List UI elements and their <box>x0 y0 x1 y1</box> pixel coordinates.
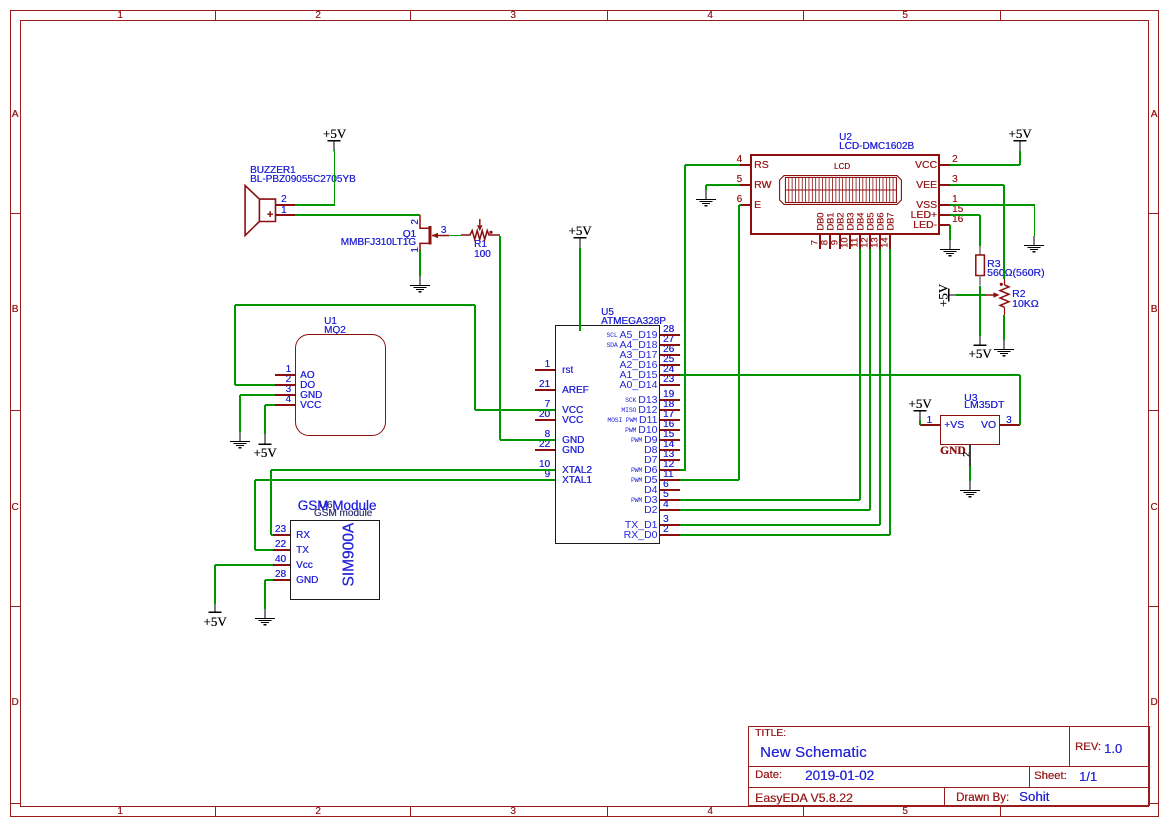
resistor R1 symbol <box>458 216 504 242</box>
wire +5V to U3 pin 1 <box>919 420 920 426</box>
ground (GSM GND) <box>252 609 278 629</box>
frame tick right 4 <box>1149 803 1159 804</box>
U5 pin 13 D7 <box>660 459 680 460</box>
U1 pin 3 GND <box>275 394 295 395</box>
U5 pin 27 A4_D18 <box>660 344 680 345</box>
wire buzzer pin 1 to Q1 drain <box>295 214 421 215</box>
U3 pin 3 VO <box>1000 424 1020 425</box>
U5 pin 6 D4 <box>660 489 680 490</box>
U5 pin 19 D13 <box>660 399 680 400</box>
buzzer BUZZER1 speaker symbol <box>243 184 279 238</box>
wire U2 LED+ to R3 <box>950 214 980 215</box>
power +5V symbol (buzzer) <box>323 127 346 140</box>
wire U2 E to U5 D5 <box>739 204 741 205</box>
frame row label B left <box>12 305 19 315</box>
module GSM module sub label <box>314 509 372 519</box>
title block REV divider <box>1069 726 1070 766</box>
GSM pin 22 TX <box>272 549 290 550</box>
U5 pin 25 A2_D16 <box>660 364 680 365</box>
IC U1 value label MQ2 <box>324 326 346 336</box>
U5 pin 21 AREF <box>535 389 555 390</box>
frame tick left 2 <box>10 410 20 411</box>
frame row label D right <box>1150 698 1157 708</box>
ground (Q1 source) <box>407 276 433 296</box>
resistor R3 symbol <box>972 245 990 286</box>
wire R2 bottom to ground <box>1003 315 1004 340</box>
IC U2 value label LCD-DMC1602B <box>839 142 914 152</box>
U2 pin 16 LED- <box>940 224 950 225</box>
U2 pin 11 DB4 <box>859 235 860 249</box>
title label Drawn By: <box>956 793 1009 805</box>
wire U2 RW to ground <box>706 184 740 185</box>
U5 pin 20 VCC <box>535 419 555 420</box>
wire U2 VEE to R2 <box>950 184 1004 185</box>
resistor R3 designator label <box>987 259 1000 270</box>
frame column label 4 top <box>707 11 713 21</box>
wire U2 RS to U5 D6 <box>685 164 740 165</box>
frame tick top 5 <box>1000 10 1001 20</box>
wire +5V to buzzer pin 2 <box>334 150 335 205</box>
wire R3 to +5V <box>979 286 980 337</box>
title value Sohit <box>1019 790 1049 803</box>
U5 pin 1 rst <box>535 369 555 370</box>
wire U1 GND to ground <box>240 394 275 395</box>
wire Q1 source to ground <box>419 250 420 276</box>
power +5V symbol (R3) <box>972 335 988 347</box>
title block Sheet divider <box>1029 766 1030 787</box>
frame tick top 1 <box>215 10 216 20</box>
U2 pin 4 RS <box>740 164 750 165</box>
U5 pin 7 VCC <box>535 409 555 410</box>
frame tick right 3 <box>1149 606 1159 607</box>
U5 pin 16 D10 <box>660 429 680 430</box>
U2 LCD display glass <box>779 175 903 206</box>
power +5V symbol (U5) <box>568 224 591 237</box>
U1 pin 4 VCC <box>275 404 295 405</box>
resistor R1 designator label <box>474 240 487 250</box>
power +5V symbol (R2 wiper) <box>936 283 949 306</box>
frame tick top 4 <box>803 10 804 20</box>
U5 pin 2 RX_D0 <box>660 534 680 535</box>
IC U1 designator label <box>324 317 337 327</box>
U2 pin 3 VEE <box>940 184 950 185</box>
transistor Q1 pin number 1 <box>411 247 421 253</box>
resistor R2 value label 10KΩ <box>1012 299 1039 310</box>
frame tick left 3 <box>10 606 20 607</box>
title value New Schematic <box>760 745 867 760</box>
U1 pin 2 DO <box>275 384 295 385</box>
frame row label A left <box>12 110 19 120</box>
frame tick top 3 <box>607 10 608 20</box>
transistor Q1 value label MMBFJ310LT1G <box>341 238 416 248</box>
U5 pin 11 D5 <box>660 479 680 480</box>
frame row label C right <box>1150 503 1157 513</box>
IC U1 MQ2 body <box>295 334 386 436</box>
transistor Q1 designator label <box>403 230 416 240</box>
frame tick right 1 <box>1149 213 1159 214</box>
power +5V symbol (U1 VCC) <box>257 434 273 446</box>
title label Sheet: <box>1034 771 1067 782</box>
U2 pin 8 DB1 <box>829 235 830 249</box>
frame column label 1 bottom <box>117 807 123 817</box>
title label EasyEDA V5.8.22 <box>755 792 853 804</box>
title label TITLE: <box>755 729 786 739</box>
wire U2 DB4 to U5 D3 <box>859 249 860 500</box>
wire U5 A1_D15 to U3 VO <box>680 374 1020 375</box>
frame row label D left <box>11 698 18 708</box>
frame tick bottom 1 <box>215 807 216 817</box>
wire U2 VCC to +5V <box>950 164 1020 165</box>
buzzer plus mark <box>267 210 273 221</box>
power +5V symbol (U3) <box>908 397 931 410</box>
GSM pin 28 GND <box>272 579 290 580</box>
title value 2019-01-02 <box>805 769 874 783</box>
U2 pin 14 DB7 <box>889 235 890 249</box>
U5 pin 3 TX_D1 <box>660 524 680 525</box>
module U6 designator label (overlapped) <box>319 500 332 511</box>
IC U3 LM35DT body <box>940 415 1000 445</box>
IC U3 designator label <box>964 393 977 404</box>
U2 pin 6 E <box>740 204 750 205</box>
U5 pin 4 D2 <box>660 509 680 510</box>
U5 pin 10 XTAL2 <box>535 469 555 470</box>
transistor Q1 symbol <box>412 212 454 260</box>
title block row divider 1 <box>748 766 1150 767</box>
U3 pin 2 GND <box>969 445 970 466</box>
ground (U2 VSS) <box>1021 236 1047 256</box>
ground (U1 GND) <box>227 432 253 452</box>
wire U3 GND to ground <box>969 466 970 481</box>
title block outline <box>748 726 1150 806</box>
module SIM900A label (rotated) <box>341 523 357 587</box>
frame tick left 1 <box>10 213 20 214</box>
wire R1 to U5 GND pin 8 <box>499 236 500 441</box>
U5 pin 28 A5_D19 <box>660 334 680 335</box>
U2 pin 10 DB3 <box>849 235 850 249</box>
R2 wiper arrow <box>986 290 1002 300</box>
wire U1 VCC to +5V <box>265 404 275 405</box>
frame tick bottom 3 <box>607 807 608 817</box>
U1 pin 1 AO <box>275 374 295 375</box>
U3 pin 1 +VS <box>920 424 940 425</box>
U2 pin 13 DB6 <box>879 235 880 249</box>
U5 pin 18 D12 <box>660 409 680 410</box>
frame tick bottom 5 <box>1000 807 1001 817</box>
wire U2 DB5 to U5 D2 <box>869 249 870 510</box>
wire U1 DO to U5 VCC pin 7 <box>235 384 275 385</box>
resistor R2 symbol <box>995 277 1015 317</box>
title block DrawnBy divider <box>944 787 945 807</box>
frame column label 5 top <box>902 11 908 21</box>
title value 1.0 <box>1104 742 1122 755</box>
IC U5 value label ATMEGA328P <box>601 317 666 327</box>
frame tick left 4 <box>10 803 20 804</box>
U5 pin 14 D8 <box>660 449 680 450</box>
frame column label 1 top <box>117 11 123 21</box>
frame tick top 2 <box>410 10 411 20</box>
frame column label 4 bottom <box>707 807 713 817</box>
IC U5 ATMEGA328P body <box>555 325 660 544</box>
U2 pin 1 VSS <box>940 204 950 205</box>
module GSM Module label <box>298 499 377 513</box>
frame column label 3 top <box>510 11 516 21</box>
wire U2 LED- to ground <box>949 225 950 240</box>
wire Q1 gate to R1 <box>450 235 462 236</box>
wire U2 VSS to ground <box>950 204 1035 205</box>
title value 1/1 <box>1079 770 1097 783</box>
title block row divider 2 <box>748 787 1150 788</box>
module GSM SIM900A body <box>290 520 380 600</box>
buzzer pin 2 <box>276 204 295 205</box>
frame column label 2 bottom <box>315 807 321 817</box>
frame row label A right <box>1151 110 1158 120</box>
resistor R1 value label 100 <box>474 250 491 260</box>
U5 pin 8 GND <box>535 439 555 440</box>
ground (R2) <box>991 340 1017 360</box>
wire GSM Vcc to +5V <box>215 564 273 565</box>
wire +5V down into U5 <box>579 248 580 332</box>
buzzer pin 1 <box>276 214 295 215</box>
IC U5 designator label <box>601 308 614 318</box>
frame tick right 2 <box>1149 410 1159 411</box>
U5 pin 23 A0_D14 <box>660 384 680 385</box>
U2 pin 9 DB2 <box>839 235 840 249</box>
U5 pin 5 D3 <box>660 499 680 500</box>
buzzer BUZZER1 value label BL-PBZ09055C2705YB <box>250 175 356 185</box>
U2 LCD text <box>834 163 850 171</box>
U5 pin 24 A1_D15 <box>660 374 680 375</box>
title label Date: <box>755 770 782 781</box>
resistor R3 value label 560Ω(560R) <box>987 268 1044 279</box>
power +5V symbol (GSM Vcc) <box>207 602 223 614</box>
frame tick bottom 2 <box>410 807 411 817</box>
U2 pin 2 VCC <box>940 164 950 165</box>
power +5V symbol (U2 VCC) <box>1008 127 1031 140</box>
GSM pin 40 Vcc <box>272 564 290 565</box>
wire U5 XTAL2 to GSM RX <box>271 469 555 470</box>
ground (U2 RW) <box>693 190 719 210</box>
U5 pin 9 XTAL1 <box>535 479 555 480</box>
frame column label 3 bottom <box>510 807 516 817</box>
frame row label C left <box>11 503 18 513</box>
frame column label 5 bottom <box>902 807 908 817</box>
wire U2 DB6 to U5 TX_D1 <box>879 249 880 525</box>
U5 pin 26 A3_D17 <box>660 354 680 355</box>
transistor Q1 pin number 3 <box>441 226 447 236</box>
frame row label B right <box>1151 305 1158 315</box>
U2 pin 12 DB5 <box>869 235 870 249</box>
wire +5V to R2 wiper <box>956 294 986 295</box>
ground (U3 GND) <box>957 481 983 501</box>
U2 pin 7 DB0 <box>819 235 820 249</box>
ground (U2 LED-) <box>937 240 963 260</box>
buzzer BUZZER1 designator label <box>250 166 296 176</box>
transistor Q1 pin number 2 <box>411 219 421 225</box>
frame tick bottom 4 <box>803 807 804 817</box>
title label REV: <box>1075 742 1101 753</box>
wire U2 DB7 to U5 RX_D0 <box>889 249 890 535</box>
resistor R2 designator label <box>1012 289 1025 300</box>
U5 pin 15 D9 <box>660 439 680 440</box>
wire U5 XTAL1 to GSM TX <box>255 479 555 480</box>
IC U3 value label LM35DT <box>964 400 1004 411</box>
U5 pin 22 GND <box>535 449 555 450</box>
IC U2 designator label <box>839 133 852 143</box>
U2 pin 15 LED+ <box>940 214 950 215</box>
U2 pin 5 RW <box>740 184 750 185</box>
frame column label 2 top <box>315 11 321 21</box>
wire GSM GND to ground <box>265 579 273 580</box>
GSM pin 23 RX <box>272 534 290 535</box>
IC U2 LCD-DMC1602B body <box>750 154 940 235</box>
U5 pin 12 D6 <box>660 469 680 470</box>
U5 pin 17 D11 <box>660 419 680 420</box>
